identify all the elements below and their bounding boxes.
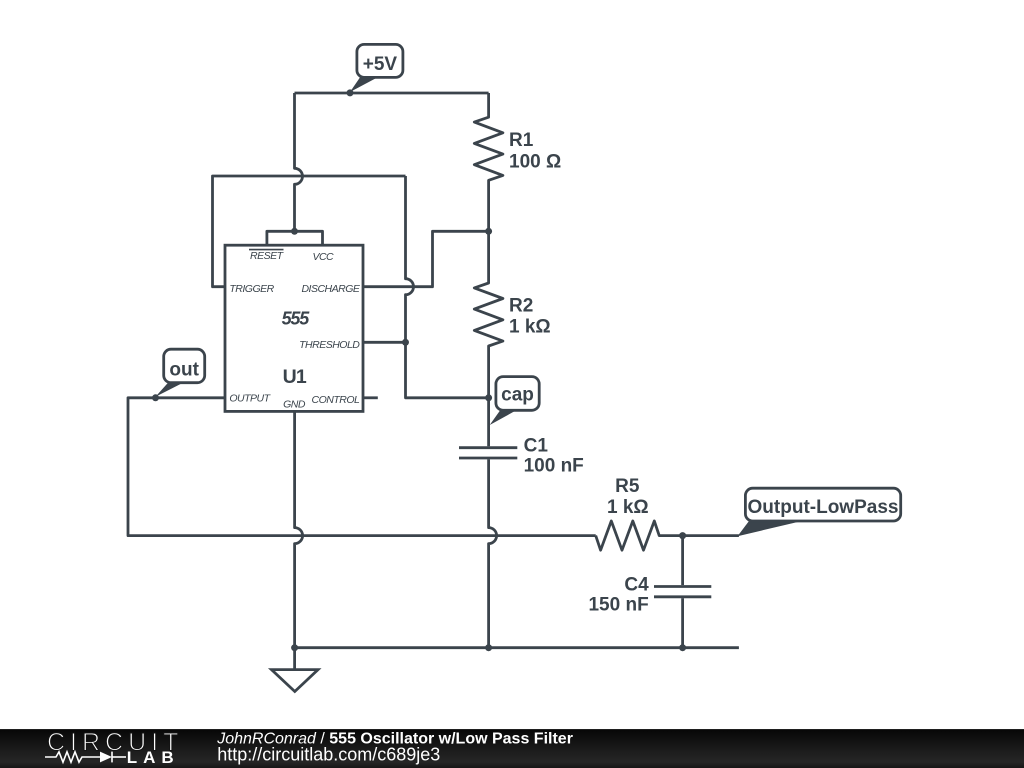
node +5V junction dot [347, 89, 354, 96]
wire discharge run [363, 231, 489, 286]
svg-text:RESET: RESET [250, 250, 285, 262]
svg-text:R1: R1 [509, 130, 534, 151]
svg-text:150 nF: 150 nF [588, 595, 648, 616]
footer bar [0, 729, 1024, 768]
wire gnd drop with hop [295, 411, 303, 647]
svg-text:GND: GND [283, 399, 306, 411]
svg-text:U1: U1 [283, 366, 307, 388]
svg-text:OUTPUT: OUTPUT [229, 393, 271, 405]
svg-text:R5: R5 [615, 476, 640, 497]
wire vcc drop with hop [295, 93, 303, 231]
junction C1-bottom dot [485, 644, 492, 651]
svg-text:CONTROL: CONTROL [312, 394, 360, 406]
junction gnd dot [291, 644, 298, 651]
svg-text:C1: C1 [524, 435, 549, 456]
wire output run [128, 398, 596, 536]
resistor R1 [474, 93, 503, 231]
flag +5V [350, 44, 403, 92]
capacitor C4 [654, 536, 711, 648]
resistor R5 [596, 521, 739, 550]
junction threshold dot [402, 339, 409, 346]
flag Output-LowPass [738, 488, 901, 536]
wire control stub [363, 396, 378, 399]
flag out [156, 349, 205, 397]
junction C4-bottom dot [679, 644, 686, 651]
capacitor C1 [459, 398, 517, 648]
svg-text:DISCHARGE: DISCHARGE [301, 283, 360, 295]
resistor R2 [474, 231, 503, 397]
wire top +5V rail [295, 92, 489, 95]
svg-text:1 kΩ: 1 kΩ [607, 497, 649, 518]
wire to cap node [406, 342, 489, 398]
svg-text:Output-LowPass: Output-LowPass [748, 497, 899, 518]
wire threshold stub [363, 341, 406, 344]
svg-text:555: 555 [282, 309, 311, 329]
svg-text:C4: C4 [624, 574, 649, 595]
node out dot [152, 394, 159, 401]
svg-text:TRIGGER: TRIGGER [229, 283, 274, 295]
svg-text:R2: R2 [509, 296, 533, 317]
junction R5-C4 dot [679, 532, 686, 539]
svg-text:cap: cap [501, 385, 534, 406]
op-amp-box U1 555 [225, 245, 363, 411]
wire reset-vcc bridge [267, 231, 323, 245]
junction R1-R2 dot [485, 228, 492, 235]
svg-text:+5V: +5V [363, 54, 398, 75]
svg-text:http://circuitlab.com/c689je3: http://circuitlab.com/c689je3 [217, 745, 440, 765]
ground symbol [272, 648, 319, 692]
logo squiggle resistor-diode [45, 752, 126, 763]
svg-text:100 nF: 100 nF [524, 456, 584, 477]
wire trigger loop [213, 176, 406, 287]
junction bridge dot [291, 228, 298, 235]
svg-text:VCC: VCC [312, 251, 334, 263]
svg-text:1 kΩ: 1 kΩ [509, 317, 551, 338]
svg-text:out: out [169, 360, 199, 381]
wire mid drop with hop [406, 176, 414, 342]
wire bottom rail [295, 646, 739, 649]
svg-text:LAB: LAB [127, 748, 180, 767]
junction cap node dot [485, 394, 492, 401]
svg-text:100 Ω: 100 Ω [509, 152, 561, 173]
flag cap [490, 377, 540, 425]
svg-text:THRESHOLD: THRESHOLD [299, 339, 360, 351]
